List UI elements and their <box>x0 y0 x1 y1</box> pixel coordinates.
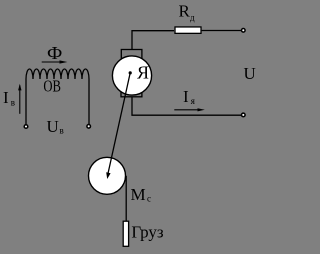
svg-text:в: в <box>11 97 15 107</box>
svg-text:U: U <box>244 64 256 83</box>
terminal: field right <box>87 125 91 129</box>
weight (Gruz) rectangle <box>123 221 128 246</box>
svg-text:I: I <box>3 88 9 107</box>
svg-text:д: д <box>190 12 195 22</box>
svg-text:в: в <box>60 125 64 135</box>
svg-text:Груз: Груз <box>131 222 164 241</box>
brush top of motor <box>121 50 142 61</box>
wire: armature bottom (brush to lower rail) <box>132 97 241 115</box>
svg-text:ОВ: ОВ <box>43 77 61 96</box>
arrow: flux direction <box>42 61 62 63</box>
svg-text:R: R <box>179 2 191 21</box>
svg-text:М: М <box>131 185 146 204</box>
wire: field winding left vertical <box>25 79 27 124</box>
wire: resistor to top terminal <box>202 30 241 32</box>
wire: field winding right vertical <box>88 79 90 124</box>
arrow: Iv direction (up) <box>19 86 21 114</box>
inductor OV (field winding coil) <box>26 69 89 79</box>
svg-text:я: я <box>191 96 195 106</box>
wire: rope from pulley to weight <box>125 176 127 221</box>
terminal: top right <box>242 29 246 33</box>
brush bottom of motor <box>121 87 142 97</box>
wire: armature top (brush to resistor) <box>132 31 174 50</box>
pulley circle <box>89 157 126 194</box>
svg-text:U: U <box>47 117 59 136</box>
svg-text:Ф: Ф <box>47 43 62 63</box>
arrow: Iya direction (right) <box>174 109 200 111</box>
node: motor shaft center dot <box>129 71 132 74</box>
svg-text:I: I <box>183 87 189 106</box>
svg-text:Я: Я <box>137 63 149 83</box>
terminal: bottom right <box>242 113 246 117</box>
motor armature circle U1 <box>112 56 151 95</box>
resistor Rd <box>175 27 201 33</box>
arrowhead at pulley center <box>106 172 110 179</box>
shaft line motor to pulley <box>108 73 130 174</box>
terminal: field left <box>24 125 28 129</box>
svg-text:с: с <box>147 194 151 204</box>
